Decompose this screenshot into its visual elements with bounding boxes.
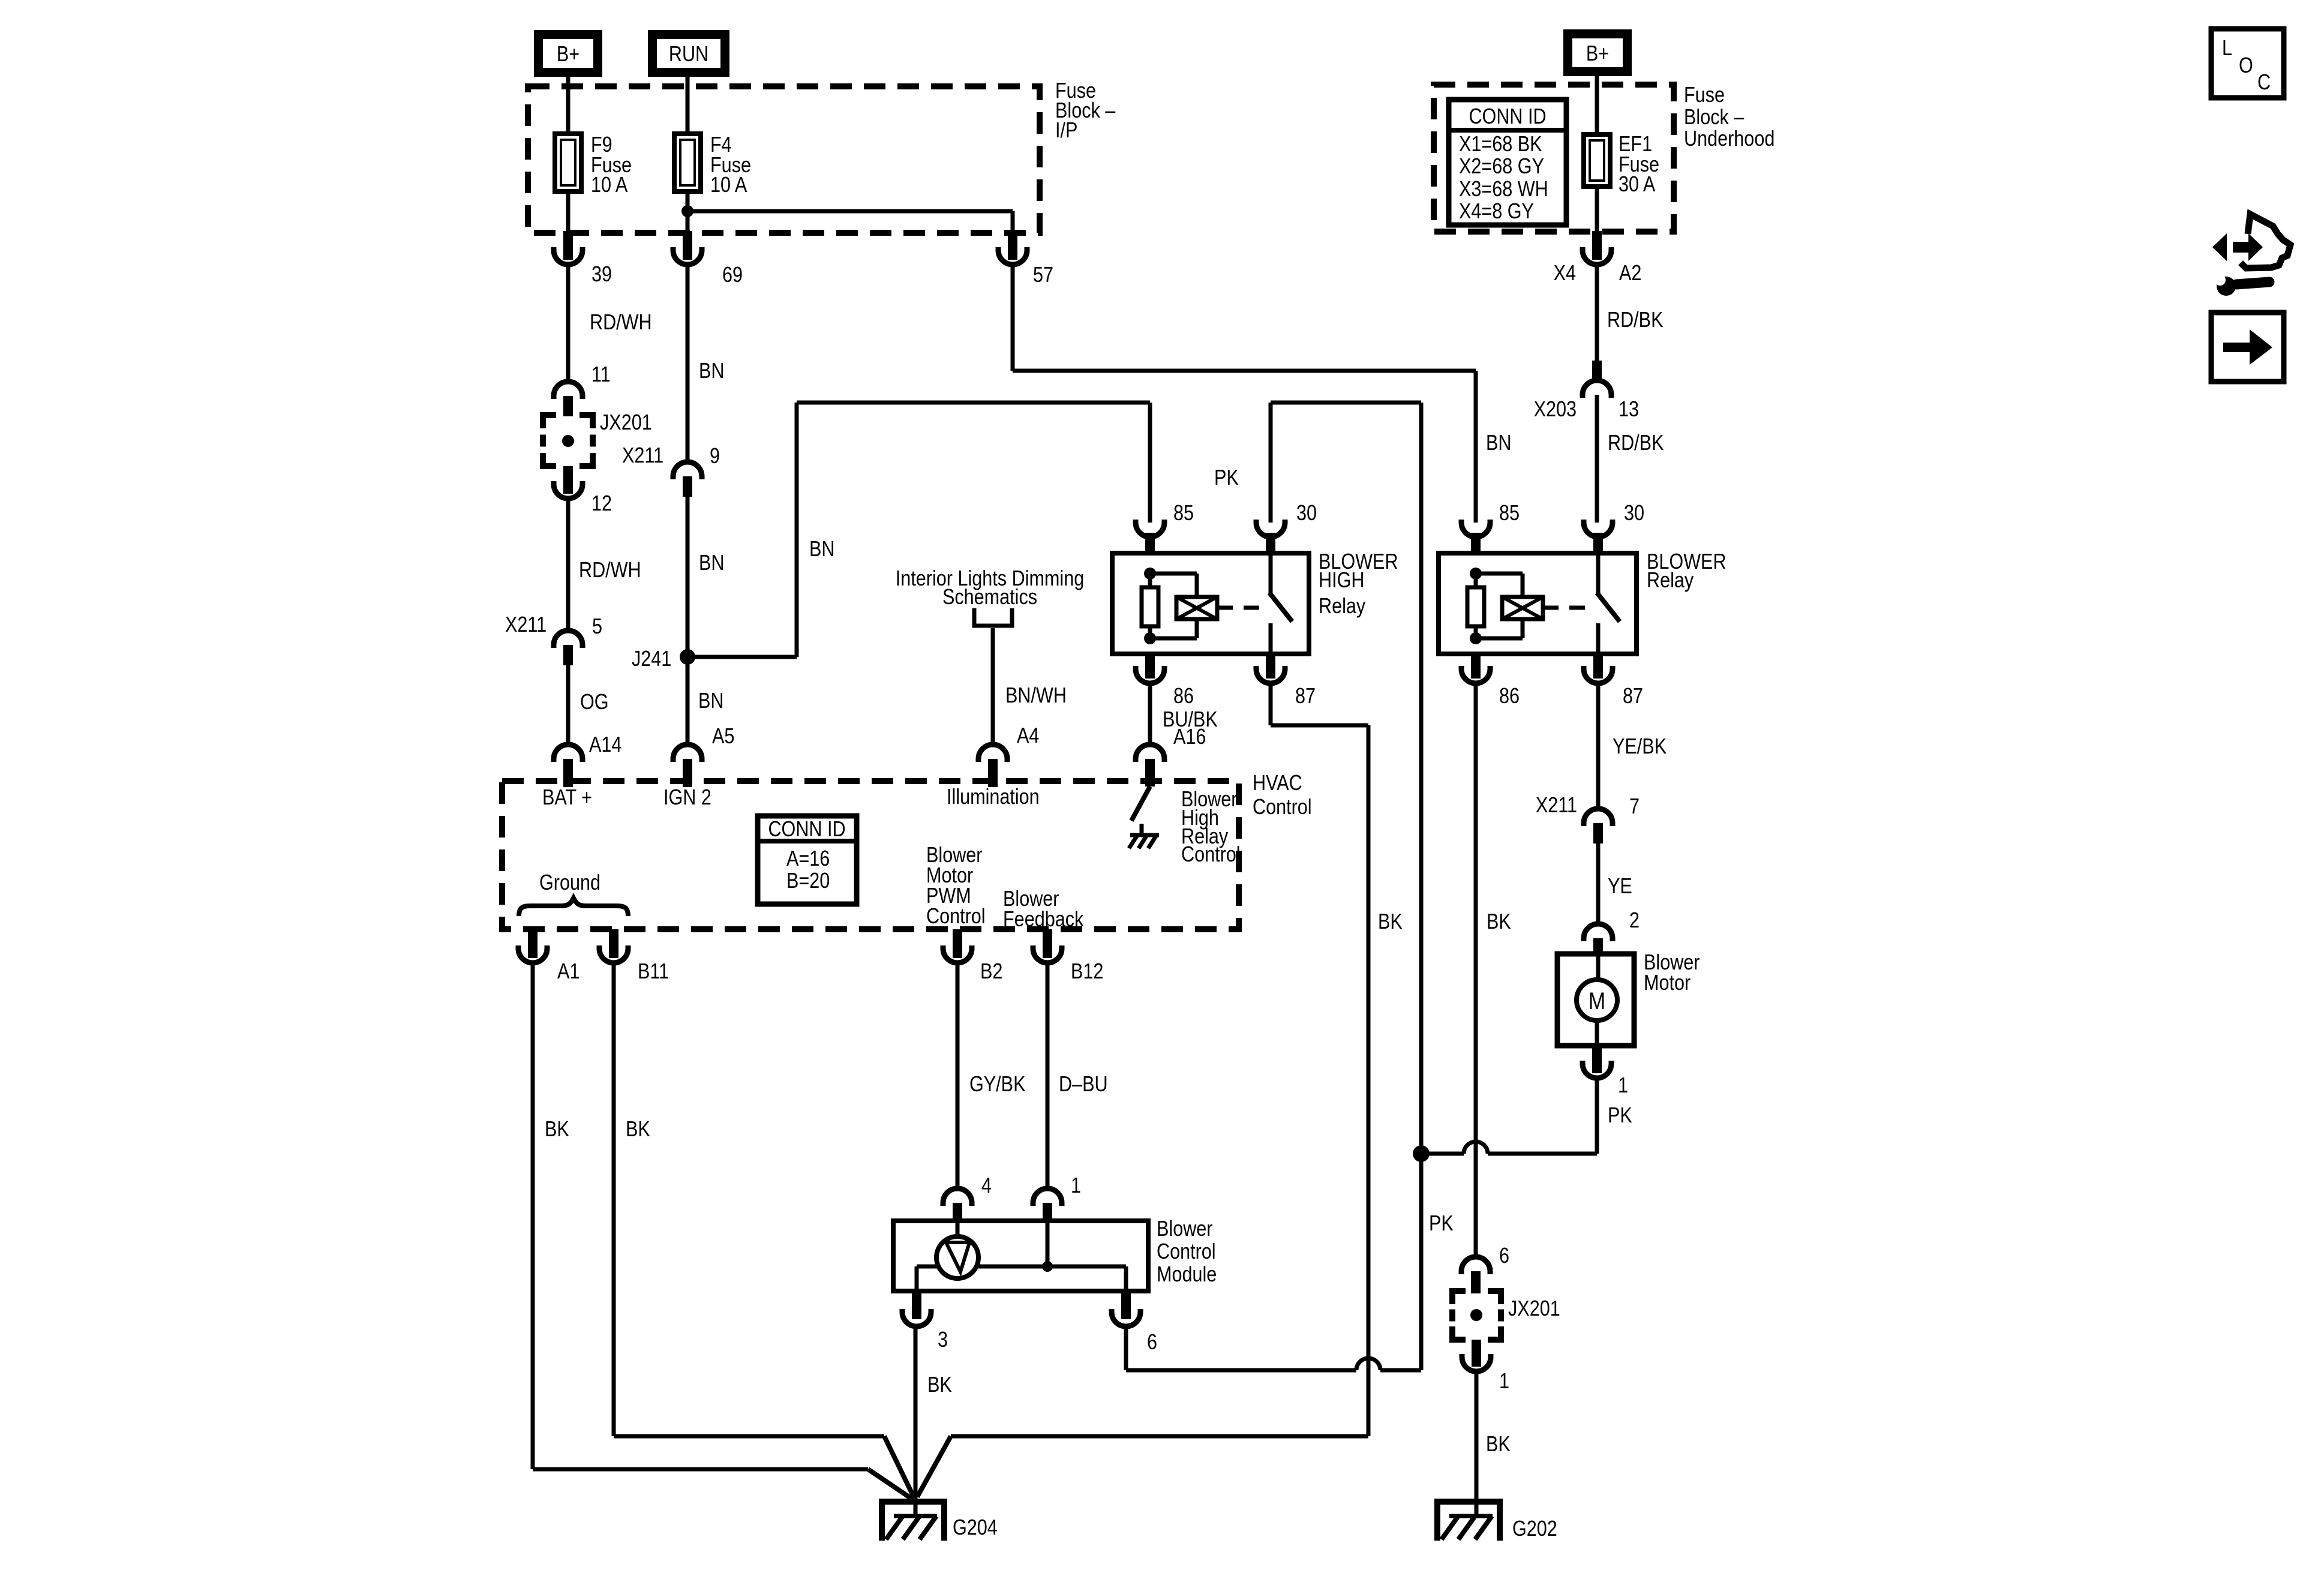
wire BN pin69 to X211-9 [686, 265, 690, 462]
svg-text:Feedback: Feedback [1003, 908, 1084, 932]
wire RD/BK X4 to X203 [1595, 265, 1599, 361]
wire D-BU B12 to module pin 1 [1046, 963, 1050, 1188]
svg-text:30: 30 [1296, 502, 1317, 526]
svg-text:B12: B12 [1071, 960, 1103, 984]
wire PK blower high relay 30 riser [1269, 403, 1273, 523]
next-page arrow icon box [2211, 313, 2284, 382]
svg-text:A2: A2 [1619, 262, 1641, 286]
svg-text:Motor: Motor [1644, 971, 1691, 995]
connector X203 pin 13 [1592, 361, 1602, 382]
svg-text:OG: OG [580, 691, 609, 715]
relay BLOWER pin 30 [1593, 533, 1603, 553]
connector JX201 pin 6 [1461, 1257, 1490, 1274]
svg-text:Control: Control [926, 905, 986, 929]
wire BK A1 to G204 [531, 963, 535, 1469]
blower high relay control switch [1131, 786, 1150, 821]
wire B+ to fuse F9 [566, 77, 571, 134]
relay BLOWER pin 86 [1145, 654, 1155, 679]
module pin 3 connector [912, 1291, 921, 1319]
svg-text:A1: A1 [557, 960, 580, 984]
module internal wiring [917, 1265, 939, 1269]
svg-text:Blower: Blower [1157, 1217, 1212, 1241]
svg-text:PK: PK [1429, 1212, 1454, 1236]
svg-text:13: 13 [1619, 398, 1639, 422]
CONN ID table (HVAC) [758, 816, 857, 904]
pin B11 connector [609, 929, 618, 958]
LOC icon box [2211, 29, 2284, 98]
CONN ID table (underhood) [1449, 100, 1566, 225]
svg-text:X4: X4 [1554, 262, 1576, 286]
svg-text:JX201: JX201 [1508, 1297, 1560, 1321]
svg-text:Relay: Relay [1647, 569, 1694, 593]
svg-text:L: L [2222, 37, 2232, 61]
fuse block underhood dashed box [1434, 85, 1674, 232]
pin 12 connector [563, 466, 573, 494]
relay BLOWER solenoid branch [1476, 572, 1523, 576]
svg-text:C: C [2257, 71, 2271, 95]
module pin 4 connector [943, 1188, 972, 1206]
svg-text:85: 85 [1173, 502, 1194, 526]
connector X211 pin 9 [673, 462, 702, 479]
wire splice to pin 57 [687, 209, 1013, 214]
svg-text:Illumination: Illumination [947, 785, 1040, 809]
svg-text:Control: Control [1253, 795, 1312, 819]
svg-text:87: 87 [1623, 685, 1643, 709]
fuse block I/P dashed box [528, 86, 1040, 233]
pin A16 connector [1136, 745, 1164, 762]
svg-text:6: 6 [1499, 1244, 1509, 1268]
wire RD/BK X203 to blower relay 30 [1595, 395, 1599, 523]
off-page bracket [974, 608, 1012, 626]
wire OG to HVAC BAT+ [566, 665, 571, 745]
svg-text:7: 7 [1629, 795, 1640, 819]
svg-text:YE/BK: YE/BK [1613, 735, 1667, 759]
relay BLOWER box [1439, 553, 1637, 654]
blower control module box [893, 1221, 1148, 1291]
relay BLOWER solenoid branch [1150, 572, 1197, 576]
svg-text:G202: G202 [1512, 1517, 1557, 1541]
terminal B+ (right) [1563, 29, 1632, 76]
blower high relay control ground mark [1130, 833, 1159, 837]
svg-text:1: 1 [1071, 1174, 1081, 1198]
svg-text:BK: BK [1486, 1433, 1511, 1457]
terminal B+ (left) [534, 30, 602, 77]
svg-text:YE: YE [1608, 875, 1632, 899]
pin A5 connector [673, 745, 702, 762]
fuse EF1 [1584, 134, 1610, 187]
svg-text:X211: X211 [622, 444, 663, 468]
svg-text:1: 1 [1499, 1370, 1509, 1394]
wire EF1 to pin X4 [1595, 187, 1599, 235]
svg-text:5: 5 [592, 615, 602, 639]
svg-text:B+: B+ [557, 43, 580, 67]
svg-text:X4=8 GY: X4=8 GY [1459, 200, 1534, 224]
pin A4 connector [978, 745, 1007, 762]
svg-text:2: 2 [1629, 909, 1640, 933]
wire BK B11 to G204 [612, 963, 616, 1436]
relay BLOWER box [1112, 553, 1309, 654]
svg-text:O: O [2239, 54, 2253, 78]
svg-text:BN/WH: BN/WH [1005, 684, 1067, 708]
svg-text:BN: BN [699, 551, 724, 575]
svg-text:I/P: I/P [1055, 119, 1077, 143]
wire pin57 to blower relay 85 (BN) [1011, 265, 1015, 371]
wire BK relay-high 87 to ground run [1269, 683, 1273, 725]
svg-text:J241: J241 [632, 647, 671, 671]
wire RUN to fuse F4 [686, 77, 690, 134]
svg-text:85: 85 [1499, 502, 1520, 526]
blower motor symbol M [1596, 956, 1601, 980]
junction block JX201 (right) [1452, 1291, 1466, 1304]
motor pin 1 connector [1592, 1046, 1602, 1073]
wire F4 to pin 69 [686, 191, 690, 235]
wire BN X211-9 to J241 [686, 497, 690, 657]
svg-text:69: 69 [722, 263, 743, 287]
relay BLOWER pin 86 [1471, 654, 1481, 679]
svg-text:RUN: RUN [669, 43, 708, 67]
svg-text:HVAC: HVAC [1253, 772, 1302, 795]
svg-text:Module: Module [1157, 1263, 1217, 1287]
svg-text:A4: A4 [1017, 724, 1039, 748]
wire BU/BK relay 86 to A16 [1148, 683, 1152, 745]
svg-text:PK: PK [1214, 466, 1239, 490]
fuse F4 [674, 134, 701, 191]
svg-text:B+: B+ [1586, 42, 1609, 66]
connector X4/A2 [1592, 231, 1602, 260]
pin 39 connector [563, 231, 573, 260]
svg-text:Control: Control [1157, 1240, 1216, 1264]
splice J241 [680, 649, 695, 665]
relay BLOWER actuator dashed link [1543, 606, 1589, 610]
wire F9 to pin 39 [566, 191, 571, 235]
svg-text:10 A: 10 A [591, 173, 628, 197]
pin 11 connector [554, 382, 582, 399]
svg-text:Ground: Ground [539, 871, 600, 895]
wire PK motor pin1 to splice [1595, 1078, 1599, 1154]
pin 69 connector [683, 231, 692, 260]
relay BLOWER switch [1596, 553, 1601, 594]
wire RD/WH JX201 to X211-5 [566, 499, 571, 631]
svg-text:87: 87 [1295, 685, 1316, 709]
wire PK splice to module pin 6 [1419, 1154, 1424, 1370]
svg-text:X2=68 GY: X2=68 GY [1459, 155, 1544, 179]
wire BK JX201 to G202 [1475, 1371, 1479, 1516]
wire GY/BK B2 to module pin 4 [956, 963, 960, 1188]
relay BLOWER coil [1470, 568, 1482, 580]
pin A1 connector [528, 929, 538, 958]
vehicle diagnostic icon [2212, 214, 2290, 296]
svg-text:A=16: A=16 [786, 847, 830, 871]
relay BLOWER switch [1269, 553, 1273, 594]
svg-text:B2: B2 [980, 960, 1002, 984]
svg-text:CONN ID: CONN ID [1469, 105, 1546, 129]
svg-text:Underhood: Underhood [1684, 127, 1774, 151]
terminal RUN [648, 30, 729, 77]
svg-text:GY/BK: GY/BK [969, 1073, 1025, 1097]
fuse F9 [555, 134, 581, 191]
pin A14 connector [554, 745, 582, 762]
svg-text:RD/WH: RD/WH [579, 559, 641, 583]
svg-text:X211: X211 [1536, 794, 1577, 818]
relay BLOWER coil [1144, 568, 1156, 580]
svg-text:Control: Control [1181, 843, 1241, 867]
svg-text:G204: G204 [953, 1516, 998, 1540]
svg-text:6: 6 [1147, 1331, 1157, 1355]
relay BLOWER pin 30 [1266, 533, 1275, 553]
svg-text:B=20: B=20 [786, 869, 830, 893]
wire J241 branch to blower high relay 85 [687, 655, 797, 659]
relay BLOWER pin 87 [1266, 654, 1275, 679]
wire BN/WH to A4 [991, 628, 995, 745]
relay BLOWER pin 87 [1593, 654, 1603, 679]
svg-text:RD/WH: RD/WH [590, 311, 652, 335]
svg-text:86: 86 [1499, 685, 1520, 709]
connector X211 pin 5 [554, 631, 582, 648]
relay BLOWER pin 85 [1471, 533, 1481, 553]
svg-text:30 A: 30 A [1619, 173, 1656, 197]
svg-text:BAT +: BAT + [542, 786, 592, 810]
svg-text:D–BU: D–BU [1059, 1073, 1108, 1097]
wire YE X211-7 to motor pin 2 [1596, 843, 1601, 924]
svg-text:Fuse: Fuse [1684, 83, 1725, 107]
svg-text:BN: BN [809, 538, 834, 562]
splice node PK [1413, 1145, 1430, 1162]
HVAC control dashed box [502, 781, 1239, 929]
blower motor box [1557, 954, 1634, 1046]
splice node below F4 [681, 205, 693, 217]
svg-text:HIGH: HIGH [1319, 569, 1364, 593]
svg-text:BK: BK [626, 1118, 650, 1142]
module pin 6 connector [1121, 1291, 1131, 1319]
svg-text:10 A: 10 A [710, 173, 747, 197]
svg-text:A14: A14 [589, 733, 621, 757]
module pin 1 connector [1033, 1188, 1062, 1206]
svg-text:X211: X211 [505, 613, 547, 637]
svg-text:BK: BK [545, 1118, 569, 1142]
svg-text:B11: B11 [638, 960, 669, 984]
svg-text:PK: PK [1608, 1104, 1632, 1128]
svg-text:X1=68 BK: X1=68 BK [1459, 133, 1542, 157]
wire B+ to fuse EF1 [1595, 76, 1599, 134]
junction block JX201 [543, 415, 556, 428]
svg-text:BN: BN [1486, 431, 1511, 455]
svg-text:M: M [1589, 987, 1605, 1014]
ground G204 [879, 1499, 947, 1505]
pin B12 connector [1043, 929, 1052, 958]
svg-text:X3=68 WH: X3=68 WH [1459, 178, 1548, 202]
pin 1 connector [1472, 1340, 1481, 1367]
wire YE/BK relay 87 to X211-7 [1596, 683, 1601, 809]
connector X211 pin 7 [1584, 809, 1613, 826]
wire BK right run to G204 [951, 1434, 1368, 1439]
svg-text:RD/BK: RD/BK [1607, 308, 1663, 332]
ground G202 [1434, 1499, 1503, 1505]
svg-text:CONN ID: CONN ID [768, 818, 845, 842]
svg-text:4: 4 [981, 1174, 992, 1198]
svg-text:BN: BN [699, 359, 724, 383]
svg-text:3: 3 [938, 1328, 948, 1352]
svg-text:57: 57 [1033, 263, 1053, 287]
wire BK blower relay 86 down [1474, 683, 1478, 1257]
motor pin 2 connector [1584, 924, 1613, 941]
svg-text:9: 9 [710, 445, 720, 469]
svg-text:12: 12 [591, 492, 612, 516]
wire BK module pin 3 to G204 [914, 1326, 918, 1516]
svg-text:39: 39 [591, 263, 612, 287]
svg-text:Schematics: Schematics [942, 586, 1037, 610]
svg-text:86: 86 [1173, 685, 1194, 709]
module transistor symbol [956, 1223, 960, 1238]
relay BLOWER pin 85 [1145, 533, 1155, 553]
wire BN J241 to A5 [686, 657, 690, 745]
svg-text:JX201: JX201 [600, 411, 652, 435]
svg-text:30: 30 [1624, 502, 1644, 526]
svg-text:IGN 2: IGN 2 [663, 786, 711, 810]
svg-text:Relay: Relay [1319, 595, 1365, 619]
svg-text:BK: BK [927, 1373, 952, 1397]
svg-text:X203: X203 [1534, 398, 1577, 422]
svg-text:BK: BK [1487, 910, 1511, 934]
svg-text:Block –: Block – [1684, 106, 1744, 130]
svg-text:RD/BK: RD/BK [1608, 431, 1664, 455]
svg-text:A5: A5 [712, 725, 734, 749]
svg-text:A16: A16 [1173, 725, 1206, 749]
relay BLOWER actuator dashed link [1217, 606, 1261, 610]
pin B2 connector [953, 929, 962, 958]
svg-text:1: 1 [1618, 1074, 1628, 1098]
svg-text:BN: BN [698, 689, 723, 713]
wire RD/WH pin39 to JX201 [566, 265, 571, 382]
svg-text:BK: BK [1378, 910, 1403, 934]
svg-text:11: 11 [591, 363, 611, 387]
pin 57 connector [1008, 231, 1017, 260]
